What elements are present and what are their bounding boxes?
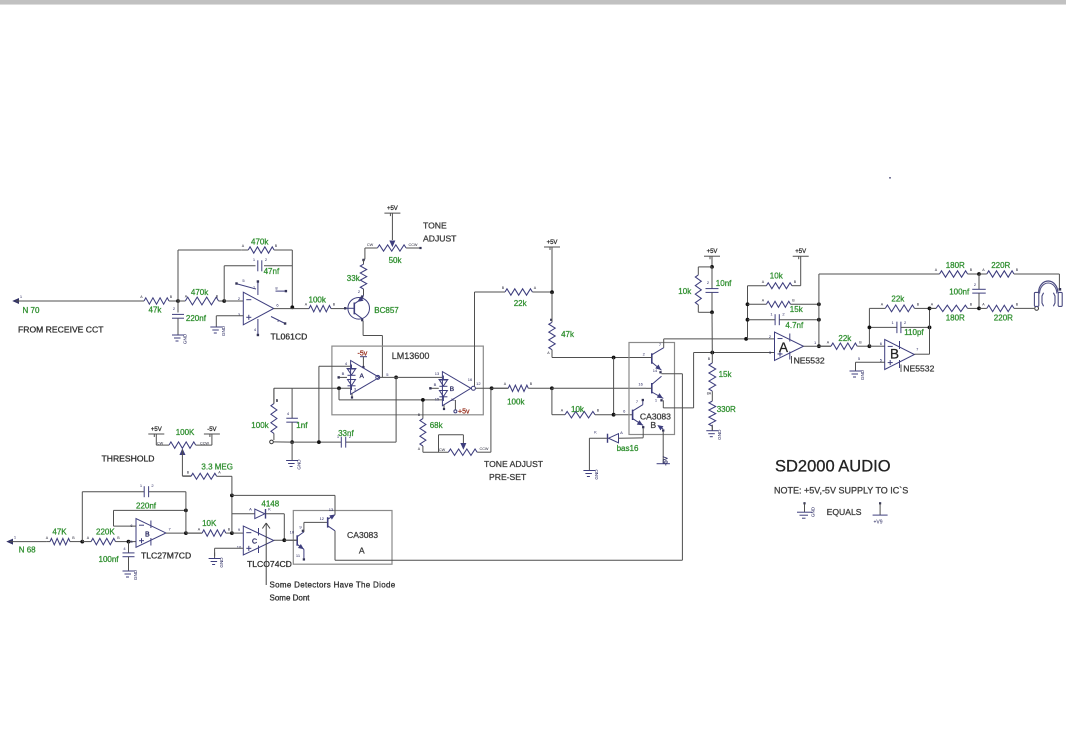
svg-text:7: 7 — [916, 347, 919, 352]
svg-text:GND: GND — [811, 506, 816, 517]
svg-text:B: B — [794, 280, 797, 284]
svg-text:B: B — [450, 386, 454, 393]
svg-text:BC857: BC857 — [374, 306, 399, 315]
wire T2 emitter to NE5532 A + input — [662, 400, 664, 408]
amp B output bubble — [471, 386, 475, 390]
wire to T2 base — [552, 387, 646, 389]
svg-text:A: A — [935, 268, 938, 272]
top window bar — [0, 0, 1066, 4]
svg-text:10: 10 — [290, 530, 295, 535]
svg-text:+5V: +5V — [795, 249, 806, 255]
transistor Q1 BC857 (PNP) — [348, 298, 370, 320]
wire T6 collector down and to CA3083 B — [334, 531, 336, 560]
resistor 33k — [363, 259, 365, 264]
node row3 right — [817, 318, 821, 322]
svg-text:TLCO74CD: TLCO74CD — [247, 559, 292, 569]
svg-text:9: 9 — [299, 525, 302, 530]
node 110pf right — [928, 326, 932, 330]
op-amp U4C TLCO74CD — [243, 526, 273, 555]
wire inner loop vertical — [185, 510, 187, 533]
svg-text:B: B — [970, 303, 973, 307]
svg-text:1: 1 — [140, 483, 143, 488]
wire T3 emitter down to bas16 row — [642, 428, 644, 437]
resistor 100k (amp B output load) — [492, 387, 509, 389]
svg-text:A: A — [931, 303, 934, 307]
svg-text:B: B — [145, 532, 150, 539]
svg-text:B: B — [117, 536, 120, 540]
headphone jack symbol — [1035, 307, 1039, 311]
svg-text:TLC27M7CD: TLC27M7CD — [141, 551, 191, 561]
wire T6 emitter up to feedback node — [334, 495, 336, 514]
svg-text:GND: GND — [860, 369, 865, 380]
svg-text:180R: 180R — [946, 261, 965, 270]
wire feedback left vertical to 470k row — [177, 250, 179, 301]
svg-text:33k: 33k — [347, 274, 361, 283]
resistor 68k — [422, 400, 424, 419]
svg-text:8: 8 — [275, 286, 278, 291]
wire junction down to 10k — [551, 388, 553, 414]
node 10k/T3 base junction — [612, 413, 616, 417]
svg-text:B: B — [708, 357, 711, 361]
svg-text:22k: 22k — [891, 295, 905, 304]
node minus row / feedback junction — [744, 337, 748, 341]
svg-text:1: 1 — [814, 340, 817, 345]
svg-text:2: 2 — [974, 282, 977, 287]
svg-text:110pf: 110pf — [904, 328, 924, 337]
svg-text:13: 13 — [435, 371, 440, 376]
svg-text:A: A — [561, 409, 564, 413]
svg-text:B: B — [792, 299, 795, 303]
resistor 10K — [186, 532, 202, 534]
node N 70 input arrow — [14, 299, 19, 303]
svg-text:B: B — [890, 347, 899, 362]
node output junction A — [817, 344, 821, 348]
wire 47nf loop left vertical — [223, 266, 225, 301]
wire feedback right vertical — [818, 274, 820, 346]
svg-text:16: 16 — [468, 377, 473, 382]
wire into op-amp C - input — [232, 532, 243, 534]
svg-text:1: 1 — [655, 398, 658, 403]
svg-text:1: 1 — [14, 535, 17, 540]
ground below 220nf — [177, 329, 179, 335]
legend ground symbol — [803, 502, 805, 504]
svg-text:B: B — [228, 528, 231, 532]
wire output row — [166, 532, 202, 534]
resistor 220K — [82, 541, 91, 543]
svg-text:A: A — [140, 295, 143, 299]
node 100k / 10k junction — [550, 386, 554, 390]
resistor 47k (to CA3083) — [550, 319, 552, 321]
svg-text:FROM RECEIVE CCT: FROM RECEIVE CCT — [18, 325, 104, 335]
svg-text:C: C — [252, 539, 257, 546]
wire outer loop (220nf) — [81, 492, 83, 542]
open terminal circle at 100k bottom — [270, 440, 274, 444]
svg-text:470k: 470k — [191, 288, 209, 297]
node 22k right / B feedback — [868, 344, 872, 348]
svg-text:1: 1 — [770, 312, 773, 317]
node amp A output junction — [394, 376, 398, 380]
resistor 15k (feedback) — [748, 303, 767, 305]
svg-text:2: 2 — [151, 483, 154, 488]
svg-text:B: B — [333, 303, 336, 307]
svg-text:A: A — [982, 303, 985, 307]
OTA amp A of LM13600 — [351, 361, 380, 395]
svg-text:A: A — [881, 303, 884, 307]
op-amp pin 5 offset stub — [238, 284, 257, 289]
svg-text:50k: 50k — [389, 256, 403, 265]
svg-text:B: B — [434, 382, 437, 387]
op-amp U2B NE5532 — [885, 340, 915, 370]
svg-text:GND: GND — [133, 569, 138, 580]
wire B feedback left vertical — [868, 308, 870, 346]
node output/diode junction — [282, 538, 286, 542]
svg-text:A: A — [779, 340, 788, 355]
resistor 100k (amp A input bias) — [273, 388, 275, 403]
svg-text:220nf: 220nf — [136, 502, 157, 511]
capacitor 1nf — [291, 388, 293, 418]
node 47K/220K/feedback junction — [80, 540, 84, 544]
wire 33nf row — [292, 441, 341, 443]
wire T1 collector up/right to NE5532 A - input — [663, 339, 665, 348]
wire branch down to 10k row — [613, 358, 615, 415]
svg-text:1: 1 — [20, 294, 23, 299]
svg-text:GND: GND — [297, 459, 302, 470]
svg-text:CCW: CCW — [408, 243, 417, 247]
svg-text:CW: CW — [367, 243, 374, 247]
amp A bottom pin stub — [351, 394, 353, 397]
svg-text:-5V: -5V — [207, 427, 216, 433]
svg-text:B: B — [917, 303, 920, 307]
svg-text:B: B — [597, 409, 600, 413]
svg-text:220K: 220K — [96, 527, 115, 536]
resistor 220R (top) — [979, 273, 987, 275]
node 10K right junction — [230, 531, 234, 535]
resistor 470k (feedback) — [241, 249, 248, 251]
wire C + input to ground — [215, 547, 244, 549]
wire T1e/T2c node to right — [662, 373, 683, 375]
svg-text:33nf: 33nf — [338, 429, 354, 438]
svg-text:7: 7 — [168, 527, 171, 532]
node 68k top junction — [421, 398, 425, 402]
wire 68k to preset pot CW — [423, 451, 449, 453]
svg-text:A: A — [534, 286, 537, 290]
svg-text:A: A — [249, 507, 252, 512]
svg-text:10k: 10k — [571, 405, 585, 414]
svg-text:470k: 470k — [251, 238, 269, 247]
svg-text:100nf: 100nf — [949, 287, 970, 296]
wire op-amp output — [274, 308, 309, 310]
wire non-inverting input to ground — [216, 315, 243, 317]
wire branch down to amp B row — [338, 388, 340, 400]
capacitor 33nf — [340, 437, 342, 448]
potentiometer tone adjust preset body — [448, 449, 477, 455]
capacitor 4.7nf (feedback) — [748, 319, 776, 321]
wire feedback top row left — [178, 249, 241, 251]
node 100nf top — [977, 272, 981, 276]
svg-text:EQUALS: EQUALS — [827, 507, 862, 517]
node junction op-amp inverting input — [222, 299, 226, 303]
ground below 100nf — [128, 565, 130, 571]
svg-text:B: B — [342, 371, 345, 376]
svg-text:THRESHOLD: THRESHOLD — [102, 454, 155, 464]
transistor T6 (CA3083 A right) — [327, 517, 329, 527]
svg-text:B: B — [187, 471, 190, 475]
OTA amp B of LM13600 — [442, 372, 471, 406]
svg-text:A: A — [359, 546, 365, 556]
svg-text:100k: 100k — [309, 295, 327, 304]
svg-text:A: A — [762, 299, 765, 303]
potentiometer 50k wiper arrow — [390, 241, 395, 246]
node 10k/10nf top — [710, 265, 714, 269]
svg-text:TONE: TONE — [423, 221, 447, 231]
svg-text:4.7nf: 4.7nf — [785, 321, 804, 330]
svg-text:A: A — [242, 244, 245, 248]
diode D2 4148 — [232, 513, 255, 515]
svg-text:8A: 8A — [707, 392, 712, 396]
node row2 right — [817, 302, 821, 306]
resistor 220R (bottom) — [979, 307, 987, 309]
svg-text:+5V: +5V — [547, 240, 558, 246]
svg-text:K: K — [594, 430, 597, 435]
wire 22k row — [475, 291, 506, 293]
capacitor 100nf (across phones) — [978, 274, 980, 289]
svg-text:47k: 47k — [149, 306, 163, 315]
wire feedback right vertical — [291, 250, 293, 307]
svg-text:100k: 100k — [507, 398, 525, 407]
svg-text:2: 2 — [358, 289, 361, 294]
svg-text:B: B — [859, 341, 862, 345]
node junction 47k/220nf/470k — [176, 299, 180, 303]
node inner loop right — [184, 509, 188, 513]
svg-text:GND: GND — [183, 333, 188, 344]
amp B diode bias pin stub — [429, 387, 431, 389]
node 33nf row branch — [317, 440, 321, 444]
wire 47k to T1 base row — [552, 357, 646, 359]
svg-text:2: 2 — [782, 312, 785, 317]
wire BC857 collector to LM13600 — [362, 321, 364, 336]
resistor 3.3 MEG — [182, 475, 191, 477]
wire input to 47k — [16, 300, 140, 302]
svg-text:100k: 100k — [251, 421, 269, 430]
svg-text:PRE-SET: PRE-SET — [489, 472, 527, 482]
svg-text:15: 15 — [435, 397, 440, 402]
svg-text:A: A — [198, 528, 201, 532]
diode D1 bas16 — [607, 434, 609, 443]
wire 10k up to +5V — [800, 256, 802, 286]
annotation leader arrow — [265, 523, 267, 585]
amp B bottom pin stub — [443, 405, 445, 408]
wire to op-amp + input — [129, 541, 137, 543]
svg-text:GND: GND — [594, 469, 599, 480]
op-amp pin 4 stub — [257, 319, 259, 334]
svg-text:CA3083: CA3083 — [347, 530, 378, 540]
wire bottom row 22k to 180R — [930, 307, 937, 309]
transistor T5 (CA3083 A left) — [296, 535, 298, 545]
node feedback/output junction — [290, 305, 294, 309]
svg-text:4: 4 — [345, 361, 348, 366]
wire node down to + input row — [711, 312, 713, 352]
svg-text:47k: 47k — [561, 330, 575, 339]
svg-text:A: A — [418, 447, 421, 451]
node amp A + input branch — [337, 386, 341, 390]
svg-text:CW: CW — [439, 448, 446, 452]
node 10k/10nf bottom — [710, 310, 714, 314]
node N 68 input arrow — [8, 539, 13, 544]
legend +V9 rail symbol — [879, 502, 881, 504]
wire amp A top input — [319, 365, 351, 367]
wire A output — [804, 345, 832, 347]
svg-text:10k: 10k — [678, 287, 692, 296]
svg-text:330R: 330R — [717, 405, 736, 414]
svg-text:B: B — [1016, 268, 1019, 272]
svg-text:4148: 4148 — [261, 499, 279, 508]
svg-text:TL061CD: TL061CD — [271, 332, 308, 342]
svg-text:NE5532: NE5532 — [794, 356, 825, 366]
svg-text:180R: 180R — [946, 313, 965, 322]
node 220K/100nf junction — [127, 540, 131, 544]
svg-text:2: 2 — [769, 334, 772, 339]
svg-text:2: 2 — [707, 280, 710, 285]
wire preset CCW up to amp B output — [490, 388, 492, 452]
resistor 10k (bias divider) — [698, 266, 712, 268]
wire top row from A feedback to 180R — [819, 273, 940, 275]
svg-text:100nf: 100nf — [99, 555, 120, 564]
svg-text:11: 11 — [296, 553, 301, 558]
svg-text:B: B — [170, 295, 173, 299]
label NE5532 (A) — [791, 356, 793, 364]
svg-text:47K: 47K — [52, 527, 67, 536]
svg-text:+5V: +5V — [387, 206, 398, 212]
svg-text:NOTE: +5V,-5V SUPPLY TO IC`S: NOTE: +5V,-5V SUPPLY TO IC`S — [774, 486, 908, 496]
amp A output bubble — [376, 375, 380, 379]
wire amp A bottom input row — [292, 387, 351, 389]
resistor 180R (top) — [940, 271, 968, 277]
resistor 22k (interstage) — [819, 345, 831, 347]
svg-text:5: 5 — [858, 356, 861, 361]
svg-text:LM13600: LM13600 — [392, 351, 430, 361]
node NE5532 + input row / 15k junction — [710, 351, 714, 355]
capacitor 47nf — [257, 260, 259, 271]
ground below 330R — [711, 425, 713, 431]
transistor T2 (CA3083 B middle) — [651, 383, 653, 393]
resistor 10k (to T3 base) — [552, 414, 565, 416]
wire 4148 cathode down to output row — [283, 514, 285, 540]
amp B bias pin to +5v — [454, 400, 456, 410]
svg-text:A: A — [46, 536, 49, 540]
op-amp pin 1 stub — [271, 317, 284, 324]
resistor 22k (B feedback) — [869, 307, 885, 309]
svg-text:GND: GND — [717, 429, 722, 440]
op-amp pin 8 stub — [276, 290, 285, 292]
wire 47nf row left — [224, 265, 255, 267]
svg-text:15k: 15k — [719, 370, 733, 379]
resistor 47K — [46, 541, 50, 543]
svg-text:-5V: -5V — [664, 456, 670, 465]
svg-text:1: 1 — [253, 257, 256, 262]
wire output junction down to 33nf row — [395, 377, 397, 442]
capacitor 10nf — [711, 267, 713, 289]
op-amp pin 7 stub — [257, 282, 259, 295]
op-amp U1 TL061CD — [243, 292, 273, 325]
svg-text:A: A — [360, 373, 365, 380]
ground at op-amp pin3 — [215, 321, 217, 327]
-5V rail bar — [657, 463, 670, 465]
ground below bas16 — [588, 465, 590, 471]
node 100nf bottom — [977, 307, 981, 311]
amp A diode stack — [347, 368, 357, 370]
wire +5V down to node — [551, 247, 553, 292]
svg-text:A: A — [305, 303, 308, 307]
op-amp U3B TLC27M7CD — [136, 519, 166, 548]
threshold pot wiper — [180, 450, 185, 455]
svg-text:6: 6 — [276, 303, 279, 308]
node row3 left — [746, 318, 750, 322]
svg-text:B: B — [970, 268, 973, 272]
svg-text:9: 9 — [238, 527, 241, 532]
svg-text:bas16: bas16 — [617, 444, 639, 453]
svg-text:A: A — [762, 280, 765, 284]
svg-text:CCW: CCW — [479, 447, 488, 451]
ground at B + input — [855, 365, 857, 371]
svg-text:6: 6 — [623, 409, 626, 414]
wire +5V to pot wiper — [391, 213, 393, 240]
svg-text:2: 2 — [238, 296, 241, 301]
svg-text:A: A — [620, 430, 623, 435]
ground at C + input — [214, 553, 216, 559]
svg-text:16: 16 — [638, 382, 643, 387]
svg-text:4: 4 — [287, 411, 290, 416]
svg-text:2: 2 — [643, 352, 646, 357]
node amp B output / preset junction — [490, 386, 494, 390]
svg-text:ADJUST: ADJUST — [423, 234, 457, 244]
svg-text:+V9: +V9 — [874, 520, 883, 526]
wire - input up to inner loop — [114, 525, 137, 527]
svg-text:A: A — [827, 341, 830, 345]
wire B output — [914, 353, 929, 355]
svg-text:13: 13 — [329, 507, 334, 512]
node 3.3MEG junction — [230, 494, 234, 498]
resistor 470k (series input) — [178, 300, 185, 302]
svg-text:7: 7 — [636, 399, 639, 404]
svg-text:B: B — [650, 420, 656, 430]
svg-text:22k: 22k — [514, 299, 528, 308]
svg-text:2: 2 — [904, 320, 907, 325]
svg-text:3.3 MEG: 3.3 MEG — [201, 462, 233, 471]
wire 3.3MEG down to node — [231, 476, 233, 495]
svg-text:220nf: 220nf — [186, 314, 207, 323]
transistor T4 emitter stub to -5V — [658, 426, 662, 430]
node output/inner loop — [184, 531, 188, 535]
svg-text:SD2000 AUDIO: SD2000 AUDIO — [775, 458, 891, 476]
wire amp B output — [475, 387, 508, 389]
svg-text:+5v: +5v — [458, 409, 470, 416]
potentiometer 50k body — [365, 247, 378, 249]
resistor 180R (bottom) — [930, 307, 937, 309]
svg-text:220R: 220R — [994, 313, 1013, 322]
svg-text:CCW: CCW — [200, 441, 209, 445]
amp B diode stack — [438, 379, 448, 381]
svg-text:10k: 10k — [770, 272, 784, 281]
svg-text:6: 6 — [880, 341, 883, 346]
svg-text:2: 2 — [173, 306, 176, 311]
node 22k/47k junction — [550, 290, 554, 294]
preset pot wiper loop — [461, 444, 466, 449]
svg-text:10nf: 10nf — [716, 279, 732, 288]
wire B + input to ground — [856, 361, 885, 363]
svg-text:10K: 10K — [202, 519, 217, 528]
IC box CA3083 A — [293, 511, 392, 565]
svg-text:2: 2 — [265, 257, 268, 262]
